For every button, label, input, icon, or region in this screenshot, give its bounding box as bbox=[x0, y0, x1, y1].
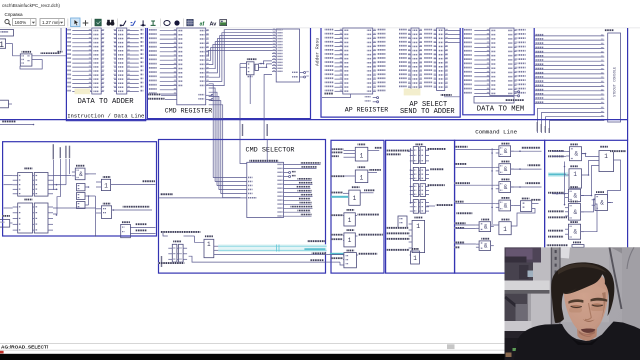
wire into DD1m bbox=[195, 236, 205, 242]
wire from labels to first comp bbox=[408, 151, 410, 153]
wires DD7b outputs bbox=[53, 207, 96, 209]
WR_DONE wire and label bbox=[427, 205, 436, 207]
neck bbox=[577, 319, 598, 341]
buffer DD1m bbox=[205, 235, 213, 237]
svg-text:1.27 mm: 1.27 mm bbox=[42, 20, 60, 25]
small comp DD6a bbox=[77, 184, 86, 191]
staircase wire bundle CMD register to decoder bbox=[209, 30, 272, 86]
section box BR2 bbox=[386, 140, 455, 273]
filled circle tool icon bbox=[174, 20, 179, 25]
section box BR1 bbox=[331, 140, 384, 273]
svg-text:csch\BrainfuckPC_rev2.dch): csch\BrainfuckPC_rev2.dch) bbox=[2, 3, 60, 8]
NEW_RB_DONE label bbox=[158, 262, 184, 264]
lower lip bbox=[582, 333, 595, 336]
svg-text:Command Line: Command Line bbox=[475, 129, 517, 136]
gate DD4z3 bbox=[570, 186, 578, 188]
svg-text:1: 1 bbox=[353, 195, 357, 202]
IC ladder C4 (AP select right) bbox=[437, 28, 445, 91]
grid/table tool icon bbox=[187, 19, 193, 25]
cyan label NO_CMD bbox=[548, 172, 568, 177]
svg-text:1: 1 bbox=[104, 183, 108, 190]
vertical net labels below stdout wires bbox=[537, 122, 538, 132]
section box CMD selector bbox=[159, 140, 326, 274]
svg-text:1: 1 bbox=[360, 153, 364, 160]
svg-text:AP REGISTER: AP REGISTER bbox=[345, 107, 389, 114]
wires BM to BR1 bottom nets bbox=[327, 254, 344, 256]
fringe strands bbox=[563, 288, 577, 294]
buffer DD6r3 bbox=[352, 186, 360, 188]
svg-text:&: & bbox=[484, 224, 488, 231]
gate DD7x AND bbox=[501, 179, 509, 181]
buffer DD4e bbox=[501, 219, 509, 221]
vertical label at BM left edge bbox=[161, 256, 162, 267]
white shelf board bbox=[505, 281, 550, 291]
svg-text:1: 1 bbox=[348, 237, 352, 244]
net label CMD_RDY bbox=[148, 98, 165, 100]
labels CMD_ADDER NP_CLK bbox=[387, 150, 410, 152]
brighter wall mid region bbox=[561, 247, 609, 322]
component DD7b dual relay bbox=[24, 199, 33, 201]
full width section boundary bbox=[0, 119, 628, 121]
crosshair tool bbox=[83, 20, 89, 26]
small comp DD6b bbox=[77, 193, 86, 200]
component DD7a dual relay bbox=[24, 168, 33, 170]
comp DD4c with output bbox=[521, 198, 529, 200]
svg-text:&: & bbox=[600, 200, 604, 207]
gate DD8x AND bbox=[501, 197, 509, 199]
VCC GND pins with open circles bbox=[206, 94, 212, 96]
small comp DD7t3 bottom bbox=[411, 248, 419, 250]
svg-text:af: af bbox=[200, 22, 205, 28]
svg-text:1: 1 bbox=[413, 255, 417, 262]
bus wires to stdout console bbox=[534, 35, 604, 37]
under-chin shadow bbox=[578, 320, 596, 337]
gate DD4z1 bbox=[570, 144, 578, 146]
nostrils bbox=[583, 319, 595, 322]
cyan highlighted label CMD_AD bbox=[331, 196, 348, 198]
label tool icon bbox=[151, 21, 156, 25]
B3 VCC GND inner labels bbox=[292, 72, 298, 73]
bottom net labels CMD_CONSOLE etc bbox=[387, 227, 409, 229]
face bbox=[564, 271, 608, 334]
lower white shelf bbox=[505, 321, 532, 331]
component DD2r6 bbox=[346, 250, 354, 252]
wires gate outputs bbox=[85, 173, 96, 175]
junction bus wire BR4 bbox=[564, 162, 566, 206]
net label CMD_WR bbox=[148, 94, 161, 96]
svg-text:&: & bbox=[573, 229, 577, 236]
B3 bottom C pin wire down bbox=[264, 75, 272, 140]
darker top-right corner bbox=[610, 247, 640, 268]
register IC DD? CMD bbox=[177, 28, 206, 105]
bottom rows D14 D15 bbox=[160, 89, 177, 91]
wire tool icon bbox=[121, 21, 126, 26]
svg-text:&: & bbox=[574, 151, 578, 158]
left small comp at edge bbox=[2, 215, 10, 217]
under-eye shade right bbox=[591, 306, 605, 311]
svg-text:Adder Resu: Adder Resu bbox=[314, 38, 320, 66]
vertical wire from DD3 bottom through gap bbox=[249, 75, 251, 104]
gate DD5 AND bbox=[76, 165, 85, 167]
dark bottom-left chair and floor bbox=[505, 331, 552, 360]
component DD7t1 bbox=[415, 144, 423, 146]
svg-text:&: & bbox=[573, 192, 577, 199]
feedback wire loop on DD2 bbox=[20, 60, 42, 69]
black letterbox bar bbox=[0, 354, 640, 360]
buffer DD7c with 1 bbox=[103, 176, 111, 178]
wires C4 to box edge top rows bbox=[448, 29, 461, 31]
IC B3 wide cmd decoder bbox=[276, 29, 299, 82]
AP_WR net label and wire bbox=[325, 93, 334, 95]
small component left edge mid bbox=[0, 100, 8, 108]
gate stack g2 bbox=[413, 184, 418, 197]
cable on right wall bbox=[610, 247, 622, 309]
eye left looking down bbox=[571, 305, 582, 309]
svg-text:1: 1 bbox=[604, 153, 608, 160]
svg-text:DATA TO ADDER: DATA TO ADDER bbox=[77, 98, 134, 106]
DD3 right pins junctions bbox=[259, 63, 264, 65]
bus tool icon bbox=[131, 21, 136, 25]
svg-text:AG:/ROAD_SELECT/: AG:/ROAD_SELECT/ bbox=[1, 345, 49, 351]
dark items cluster bbox=[505, 263, 534, 282]
toolbar separator bbox=[160, 19, 162, 27]
svg-text:1: 1 bbox=[348, 217, 352, 224]
+5V GND pins B3 right bbox=[300, 72, 304, 74]
net label DATA_TO_MEM bbox=[505, 99, 524, 101]
svg-text:1: 1 bbox=[360, 175, 364, 182]
toolbar grid combo 1.27 mm bbox=[40, 19, 65, 26]
bright wall strip left of pole bbox=[531, 247, 551, 332]
green tool icon bbox=[95, 19, 101, 26]
toolbar bottom edge bbox=[0, 27, 640, 29]
svg-text:&: & bbox=[504, 148, 508, 155]
svg-text:1: 1 bbox=[416, 223, 420, 230]
VCC GND pins AP register bbox=[373, 97, 377, 99]
small bright items bottom-left bbox=[513, 348, 517, 351]
wire from label to DD4m bbox=[163, 233, 168, 236]
section box A: Instruction / Data Line bbox=[66, 28, 145, 121]
gate DD5z5 bbox=[570, 221, 578, 223]
bike parts dark items bbox=[505, 294, 528, 322]
buffer DD5r1 bbox=[358, 144, 366, 146]
find binoculars icon bbox=[107, 22, 111, 26]
CMD selector IC body bbox=[247, 162, 284, 217]
svg-text:&: & bbox=[79, 171, 83, 178]
scrollbar bottom line bbox=[0, 349, 640, 351]
vertical net labels TCL_DOWN etc bbox=[53, 144, 54, 159]
svg-text:1: 1 bbox=[503, 226, 507, 233]
vertical wire bundle down to CMD selector bbox=[209, 84, 214, 178]
svg-text:1: 1 bbox=[0, 41, 4, 50]
svg-text:&: & bbox=[484, 243, 488, 250]
gate DD6x AND bbox=[501, 161, 509, 163]
buffer DD5y right bbox=[600, 146, 608, 148]
net wire B+T_SUB bbox=[214, 254, 327, 256]
webcam wall background bbox=[505, 247, 640, 360]
svg-text:&: & bbox=[573, 209, 577, 216]
svg-text:STDOUT CONSOLE: STDOUT CONSOLE bbox=[614, 67, 618, 97]
DATA_RD_FROM_MEM label bbox=[160, 231, 200, 233]
input wire from box edge bbox=[456, 203, 496, 205]
component DD4m bbox=[173, 241, 181, 243]
vertical wire x240 down through gap bbox=[239, 64, 241, 140]
white paper on wall bbox=[557, 246, 570, 259]
selection highlight AP select bbox=[404, 89, 421, 96]
nose bbox=[585, 303, 591, 320]
vertical net labels in gap below box B bbox=[242, 124, 243, 136]
highlighted cyan net band bbox=[218, 244, 326, 252]
gate DD5x AND bbox=[501, 143, 509, 145]
junction tool icon bbox=[141, 20, 146, 25]
buffer DD7d bbox=[103, 203, 111, 205]
section box BR3 bbox=[455, 140, 545, 273]
toolbar separator bbox=[117, 19, 119, 27]
buffer DD4z2 tall bbox=[570, 165, 578, 167]
DD3 left pin wires bbox=[240, 63, 246, 65]
svg-text:160%: 160% bbox=[15, 20, 27, 25]
wire DD4c down bbox=[511, 209, 535, 227]
bottom bracket of data-to-mem IC bbox=[474, 97, 514, 104]
net wire NHT_OUT bbox=[189, 256, 327, 262]
bottom label NRT_WECK_SC bbox=[547, 244, 569, 246]
gate DD4y right bbox=[596, 191, 604, 193]
wires from DD3 to decoder rows bbox=[264, 61, 273, 64]
cyan label bottom bbox=[330, 253, 344, 255]
selection highlight on bottom pins bbox=[75, 89, 91, 95]
CMD selector right pins with op labels bbox=[278, 164, 283, 165]
mouth open bbox=[581, 329, 596, 333]
under-eye shade left bbox=[569, 308, 582, 313]
IC ladder C3 (AP select left) bbox=[411, 28, 419, 91]
section box B: CMD register bbox=[147, 28, 310, 119]
net label DATA_TO_MEM bbox=[40, 52, 60, 54]
sheet border right bbox=[627, 28, 629, 140]
svg-text:DATA TO MEM: DATA TO MEM bbox=[477, 106, 524, 114]
eye right looking down bbox=[592, 303, 603, 307]
right cheek shadow bbox=[601, 292, 606, 321]
svg-text:&: & bbox=[504, 203, 508, 210]
wire NP_CLK to box edge bbox=[111, 184, 156, 186]
rack pole with slots bbox=[551, 247, 561, 324]
toolbar zoom combo 160% bbox=[13, 19, 37, 26]
component DD1x bottom bbox=[122, 221, 130, 223]
vertical wires from labels bbox=[53, 160, 55, 190]
eyebrow left bbox=[568, 299, 583, 303]
buffer DD6r4 bbox=[346, 209, 354, 211]
left edge wires to DD7a/b bbox=[4, 174, 13, 176]
hair sheen bbox=[558, 263, 607, 274]
svg-text:&: & bbox=[504, 166, 508, 173]
vertical wire with junction dots bbox=[410, 148, 412, 203]
label CMD_SELECTOR bbox=[249, 160, 278, 162]
tall buffer DD7t2 bbox=[414, 217, 422, 219]
vertical input bus BR3 bbox=[491, 148, 493, 224]
svg-text:CMD SELECTOR: CMD SELECTOR bbox=[246, 147, 295, 155]
eyebrow right bbox=[591, 298, 608, 302]
component DD3 small relay bbox=[247, 58, 257, 60]
wires from DD1m to nets bbox=[214, 245, 218, 247]
svg-text:1: 1 bbox=[573, 171, 577, 178]
stdout console IC DD2 bbox=[605, 29, 615, 31]
toolbar separator bbox=[91, 19, 93, 27]
input wire from box edge bbox=[456, 166, 496, 168]
CMD selector left pins fed by vertical bundle bbox=[213, 177, 247, 179]
small comp left of DD7t2 bbox=[398, 216, 407, 228]
wire CMD_RD_FROM_MEM bbox=[112, 209, 152, 211]
vertical wires x240 x267 ending at IC top bbox=[240, 140, 247, 164]
small component top-left corner bbox=[0, 30, 14, 37]
gate DD8a bottom bbox=[481, 238, 489, 240]
collar shadow bbox=[568, 335, 599, 345]
wires CMD_WR CMD_SEL to edge bbox=[130, 227, 155, 229]
wire DD2 to box A bbox=[32, 55, 66, 57]
input wire from box edge bbox=[456, 148, 496, 150]
svg-text:Av: Av bbox=[210, 22, 218, 28]
junction dots right of DD7a bbox=[56, 184, 58, 186]
gate DD4g bottom bbox=[481, 219, 489, 221]
forehead band bbox=[566, 285, 606, 297]
section box D: data to mem bbox=[463, 28, 534, 115]
IC ladder DD? (data to adder left half) bbox=[92, 28, 101, 94]
input wire from box edge bbox=[456, 184, 496, 186]
connection mesh BR4 bbox=[582, 154, 600, 157]
toolbar zoom magnifier icon bbox=[5, 20, 9, 24]
VCC GND pins data-to-mem IC bbox=[514, 91, 518, 93]
section box BR4 bbox=[545, 140, 628, 273]
hair bbox=[551, 262, 614, 323]
small comp bottom partially hidden bbox=[573, 242, 581, 244]
horizontal scrollbar thumb bbox=[447, 344, 455, 349]
section box C: Adder Result / AP bbox=[321, 28, 460, 117]
svg-text:Instruction / Data Line: Instruction / Data Line bbox=[67, 112, 144, 119]
right wall slightly darker band bbox=[622, 247, 640, 332]
AP register wide IC bbox=[343, 28, 373, 94]
svg-text:Справка: Справка bbox=[5, 12, 23, 17]
gate DD6z4 bbox=[570, 201, 578, 203]
image tool icon bbox=[220, 20, 227, 26]
toolbar separator bbox=[67, 19, 69, 27]
status bar top line bbox=[0, 342, 640, 344]
CMD_SEL wire and label bbox=[159, 197, 247, 199]
AP_SEL net label and wire bbox=[441, 94, 452, 96]
component DD2 (latch) bbox=[22, 51, 32, 53]
wire from buffer to DD2 bbox=[13, 44, 21, 56]
buffer DD6r5 bbox=[346, 229, 354, 231]
small light-blue item bbox=[528, 271, 534, 278]
gate stack g1 bbox=[413, 167, 418, 180]
top-left dark shelf with purple items bbox=[505, 247, 542, 262]
register IC data-to-mem bbox=[490, 28, 514, 95]
gate stack g3 bbox=[413, 200, 418, 214]
short vertical wire at x61 bbox=[60, 28, 62, 51]
red recording mark bbox=[0, 351, 4, 354]
svg-text:SEND TO ADDER: SEND TO ADDER bbox=[400, 108, 455, 116]
small comp DD6c bbox=[77, 202, 86, 209]
second thin cable top-right bbox=[627, 247, 634, 269]
svg-text:CMD REGISTER: CMD REGISTER bbox=[165, 107, 213, 114]
svg-text:&: & bbox=[504, 184, 508, 191]
buffer DD36 with 1 glyph bbox=[0, 39, 6, 48]
cyan net labels bbox=[307, 240, 325, 242]
wire stub left edge with label bbox=[0, 124, 34, 126]
stdout console lower pins bbox=[538, 108, 605, 133]
buffer DD6r2 bbox=[358, 166, 366, 168]
cursor tool button (active) bbox=[71, 18, 80, 27]
wires DD7a to gate bbox=[53, 184, 66, 186]
WR_DONE label BR3 low bbox=[456, 212, 472, 214]
section box bottom-left bbox=[3, 142, 157, 236]
toolbar separator bbox=[183, 19, 185, 27]
ellipse tool icon bbox=[164, 21, 170, 26]
vertical wire to bottom edge bbox=[94, 196, 96, 236]
torso sweater bbox=[514, 322, 640, 360]
IC ladder DD? (data to adder right half) bbox=[117, 28, 127, 94]
svg-text:1: 1 bbox=[207, 241, 211, 248]
